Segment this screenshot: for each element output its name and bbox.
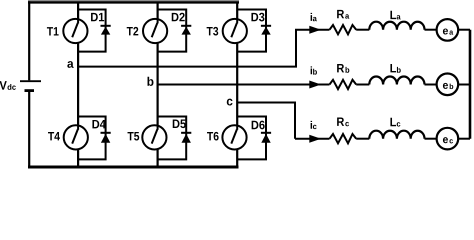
label D5 xyxy=(173,120,186,129)
transistor T3 xyxy=(223,19,247,43)
wire top DC rail xyxy=(28,1,239,3)
label T1 xyxy=(47,27,59,35)
battery Vdc negative plate xyxy=(25,89,35,92)
transistor T2 xyxy=(143,19,167,43)
label ia xyxy=(311,13,317,21)
arrow current ia xyxy=(309,26,321,34)
label D6 xyxy=(252,121,265,130)
diode D3 xyxy=(261,26,271,35)
inductor Lb xyxy=(369,76,424,84)
wire phase c ec to neutral xyxy=(458,138,470,140)
label T3 xyxy=(207,27,219,36)
node a label xyxy=(67,61,73,68)
label Rb xyxy=(337,64,349,73)
wire node b phase line xyxy=(158,84,330,86)
wire node c to phase c dropper xyxy=(237,103,295,139)
wire top DC rail gray scan edge xyxy=(28,0,239,2)
arrow current ic xyxy=(309,135,321,143)
wire diode D3 branch xyxy=(237,10,266,52)
diode D2 xyxy=(181,26,191,35)
wire inverter leg 1 xyxy=(77,2,79,167)
transistor T5 xyxy=(142,125,166,149)
resistor Rb xyxy=(330,80,357,89)
label ib xyxy=(311,66,317,74)
label La xyxy=(390,11,400,20)
wire node a to phase a riser xyxy=(78,30,296,67)
wire neutral vertical xyxy=(469,30,472,139)
diode D1 xyxy=(101,26,111,35)
wire phase a ea to neutral xyxy=(458,29,470,31)
diode D5 xyxy=(181,133,191,143)
wire diode D2 branch xyxy=(158,10,187,52)
wire phase a line xyxy=(295,29,330,31)
resistor Rc xyxy=(330,134,357,143)
wire phase a La to ea xyxy=(425,29,438,31)
label T6 xyxy=(207,132,219,141)
label Vdc xyxy=(0,81,16,90)
label T5 xyxy=(128,132,140,141)
label Lc xyxy=(390,118,400,127)
wire left DC rail upper segment xyxy=(28,1,30,80)
inductor Lc xyxy=(369,131,424,139)
label D3 xyxy=(251,13,264,22)
wire diode D4 branch xyxy=(78,117,106,160)
label Ra xyxy=(337,10,349,19)
label Lb xyxy=(390,64,400,73)
label D4 xyxy=(92,120,105,128)
label D1 xyxy=(91,13,104,21)
arrow current ib xyxy=(309,81,321,89)
node b label xyxy=(147,77,153,86)
inductor La xyxy=(369,22,424,30)
diode D6 xyxy=(261,133,271,143)
label Rc xyxy=(337,118,349,127)
label T4 xyxy=(48,132,60,140)
wire phase c Rc to Lc xyxy=(356,138,369,140)
wire phase b Lb to eb xyxy=(425,84,438,86)
label T2 xyxy=(127,27,139,36)
wire bottom DC rail xyxy=(28,166,239,169)
wire phase a Ra to La xyxy=(356,29,369,31)
wire diode D1 branch xyxy=(78,10,106,52)
wire diode D5 branch xyxy=(158,117,187,160)
wire inverter leg 3 xyxy=(236,2,238,167)
transistor T6 xyxy=(222,125,246,149)
wire diode D6 branch xyxy=(237,117,266,160)
source ec xyxy=(437,128,459,150)
wire phase b eb to neutral xyxy=(458,84,470,86)
transistor T1 xyxy=(63,19,87,43)
label D2 xyxy=(172,13,185,22)
transistor T4 xyxy=(64,125,88,149)
battery Vdc positive plate xyxy=(20,80,41,82)
label ic xyxy=(311,121,317,129)
wire phase b Rb to Lb xyxy=(356,84,369,86)
wire inverter leg 2 xyxy=(157,2,159,167)
wire left DC rail lower segment xyxy=(28,92,30,168)
source ea xyxy=(437,19,459,41)
resistor Ra xyxy=(330,25,357,34)
wire phase c Lc to ec xyxy=(425,138,438,140)
wire phase c line xyxy=(295,138,330,140)
node c label xyxy=(227,99,233,106)
source eb xyxy=(437,74,459,96)
diode D4 xyxy=(101,133,111,143)
